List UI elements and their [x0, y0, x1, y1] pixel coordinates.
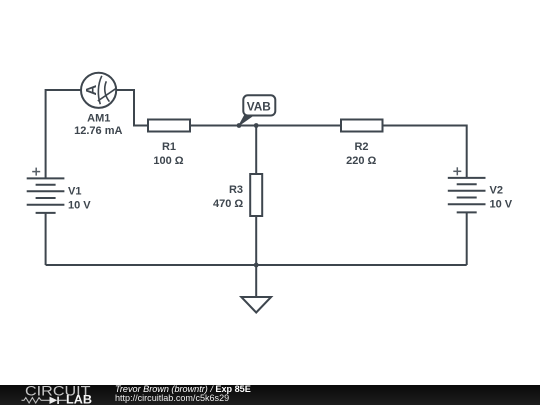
- svg-text:12.76 mA: 12.76 mA: [74, 125, 122, 137]
- CircuitLab logo: [20, 384, 100, 405]
- svg-text:VAB: VAB: [247, 99, 271, 113]
- ground symbol: [241, 265, 271, 313]
- wire left vertical (ammeter to V1 top): [46, 90, 81, 178]
- svg-text:100 Ω: 100 Ω: [153, 155, 183, 167]
- resistor R1: [148, 120, 190, 132]
- svg-text:AM1: AM1: [87, 112, 110, 124]
- svg-text:LAB: LAB: [66, 395, 92, 405]
- wire ammeter right to R1 left: [116, 90, 148, 126]
- svg-text:R3: R3: [229, 184, 243, 196]
- wire V2 bottom to bottom rail: [466, 213, 468, 265]
- V1 polarity plus marker: [32, 168, 40, 176]
- svg-text:220 Ω: 220 Ω: [346, 155, 376, 167]
- wire R1 right to R2 left (node A run): [190, 125, 341, 127]
- svg-text:V1: V1: [68, 185, 81, 197]
- svg-text:10 V: 10 V: [68, 199, 91, 211]
- svg-text:V2: V2: [490, 185, 503, 197]
- wire node B down to R3 top: [255, 126, 257, 175]
- ammeter AM1: [81, 73, 116, 108]
- wire R2 right to V2 top: [383, 126, 467, 178]
- V2 polarity plus marker: [453, 167, 461, 175]
- bottom rail junction dot: [254, 263, 259, 268]
- svg-text:470 Ω: 470 Ω: [213, 198, 243, 210]
- svg-text:A: A: [83, 85, 100, 96]
- footer banner: [0, 385, 540, 405]
- battery V1: [27, 178, 65, 213]
- node B junction dot (R3 tap): [254, 123, 259, 128]
- svg-text:R1: R1: [162, 141, 176, 153]
- wire bottom rail: [46, 264, 467, 266]
- svg-text:R2: R2: [354, 141, 368, 153]
- footer attribution text: [115, 385, 251, 405]
- battery V2: [448, 178, 486, 213]
- wire R3 bottom to bottom rail: [255, 216, 257, 265]
- resistor R2: [341, 120, 383, 132]
- resistor R3: [250, 174, 262, 216]
- node label VAB flag: [239, 95, 275, 125]
- svg-text:10 V: 10 V: [490, 199, 513, 211]
- wire V1 bottom to bottom rail: [45, 213, 47, 265]
- node VAB junction dot: [237, 123, 242, 128]
